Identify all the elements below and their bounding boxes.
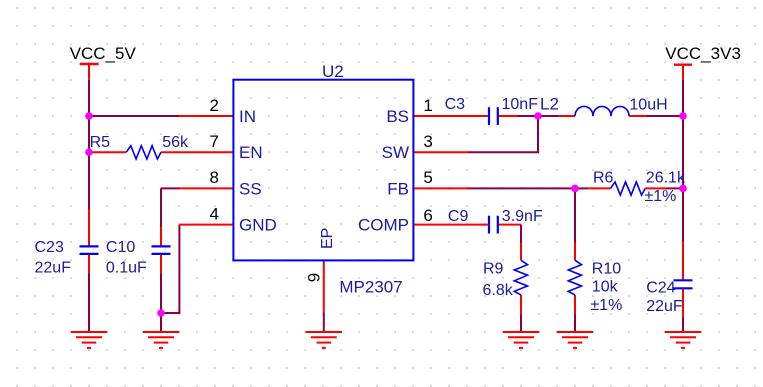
svg-text:C9: C9: [448, 208, 469, 225]
svg-text:7: 7: [210, 132, 219, 151]
svg-text:VCC_3V3: VCC_3V3: [665, 44, 741, 63]
svg-text:1: 1: [423, 96, 432, 115]
svg-text:0.1uF: 0.1uF: [106, 260, 147, 277]
svg-text:L2: L2: [540, 95, 559, 114]
svg-text:22uF: 22uF: [646, 298, 683, 315]
svg-text:3: 3: [423, 132, 432, 151]
svg-text:BS: BS: [386, 107, 409, 126]
svg-text:R6: R6: [593, 169, 614, 186]
svg-text:SW: SW: [382, 143, 409, 162]
svg-text:VCC_5V: VCC_5V: [70, 44, 137, 63]
svg-text:6: 6: [423, 206, 432, 225]
svg-text:±1%: ±1%: [645, 188, 677, 205]
svg-text:9: 9: [305, 273, 324, 282]
svg-text:5: 5: [423, 168, 432, 187]
svg-text:R9: R9: [483, 260, 504, 277]
svg-text:10nF: 10nF: [502, 96, 539, 113]
svg-text:10uH: 10uH: [629, 96, 667, 113]
svg-text:R10: R10: [592, 260, 621, 277]
svg-text:C23: C23: [35, 239, 64, 256]
svg-text:IN: IN: [239, 107, 256, 126]
svg-text:8: 8: [210, 168, 219, 187]
svg-text:R5: R5: [90, 134, 111, 151]
svg-text:3.9nF: 3.9nF: [502, 208, 543, 225]
svg-text:C3: C3: [445, 96, 466, 113]
svg-text:GND: GND: [239, 216, 277, 235]
svg-text:C24: C24: [646, 280, 675, 297]
svg-text:SS: SS: [239, 179, 262, 198]
svg-text:EP: EP: [319, 228, 336, 249]
svg-text:EN: EN: [239, 143, 263, 162]
svg-text:10k: 10k: [592, 279, 619, 296]
svg-text:2: 2: [210, 96, 219, 115]
svg-text:U2: U2: [322, 62, 344, 81]
svg-text:4: 4: [210, 204, 219, 223]
svg-text:FB: FB: [387, 179, 409, 198]
svg-text:COMP: COMP: [358, 216, 409, 235]
svg-text:22uF: 22uF: [35, 260, 72, 277]
svg-text:26.1k: 26.1k: [646, 170, 686, 187]
svg-text:±1%: ±1%: [590, 297, 622, 314]
svg-text:MP2307: MP2307: [339, 278, 402, 297]
svg-text:C10: C10: [106, 239, 135, 256]
svg-text:6.8k: 6.8k: [483, 282, 514, 299]
svg-text:56k: 56k: [162, 134, 189, 151]
